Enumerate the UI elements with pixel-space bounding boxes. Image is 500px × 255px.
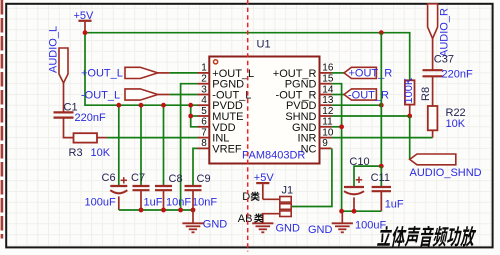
junction (193,210) — [191, 208, 196, 213]
wire R3 to INL pin 7 — [107, 137, 198, 139]
svg-text:C7: C7 — [131, 172, 145, 184]
capacitor C37 220nF — [423, 39, 473, 106]
svg-text:100uF: 100uF — [85, 197, 116, 209]
svg-text:AUDIO_R: AUDIO_R — [439, 8, 451, 57]
resistor R3 10K — [69, 133, 111, 159]
wire PGND pin2 to ground rail — [181, 84, 198, 210]
svg-text:AUDIO_SHND: AUDIO_SHND — [410, 167, 482, 179]
svg-text:10nF: 10nF — [166, 197, 191, 209]
capacitor C6 100uF (polarized) — [85, 172, 128, 210]
capacitor C10 100uF (polarized) — [344, 156, 386, 231]
svg-text:C11: C11 — [371, 172, 390, 184]
svg-text:R3: R3 — [69, 147, 83, 159]
IC U1 PAM8403DR — [198, 39, 334, 164]
svg-text:5: 5 — [201, 106, 207, 117]
svg-text:C37: C37 — [434, 54, 454, 66]
svg-text:10K: 10K — [91, 147, 111, 159]
print page boundary (dashed) — [247, 0, 249, 252]
ground GND (left) — [182, 210, 227, 232]
wire MUTE/VDD tie to 5V — [191, 105, 198, 127]
svg-text:4: 4 — [201, 95, 207, 106]
svg-text:GND: GND — [276, 223, 301, 235]
capacitor C7 1uF — [131, 172, 163, 210]
svg-text:-OUT_R: -OUT_R — [348, 89, 389, 101]
capacitor C11 1uF — [371, 172, 404, 211]
svg-text:J1: J1 — [282, 185, 294, 197]
ground GND (C10/C11) — [308, 211, 353, 236]
port AUDIO_L — [48, 26, 69, 83]
junction (164,210) — [161, 208, 166, 213]
wire PVDD pin13 to 5V — [332, 104, 382, 106]
svg-text:10nF: 10nF — [192, 197, 217, 209]
svg-text:C6: C6 — [102, 172, 116, 184]
wire pin 16 to +OUT_R — [332, 72, 345, 74]
wire NC pin9 to J1 pin2 — [291, 148, 332, 206]
wire C10/C11 top rail — [354, 166, 381, 187]
junction (342,210) — [339, 209, 344, 214]
port AUDIO_SHND — [410, 154, 482, 179]
capacitor C8 10nF — [155, 173, 191, 210]
svg-text:3: 3 — [201, 84, 207, 95]
junction (342,127) — [339, 124, 344, 129]
junction (119,105) — [116, 103, 121, 108]
svg-text:D: D — [242, 191, 250, 203]
wire ground rail C6-C9 — [119, 209, 193, 211]
svg-text:U1: U1 — [257, 39, 271, 51]
port +OUT_L — [81, 67, 170, 79]
junction 5V/C10-C11 feed (381,33) — [379, 30, 384, 35]
wire +OUT_L to pin 1 — [170, 72, 198, 74]
svg-text:C9: C9 — [197, 173, 211, 185]
svg-text:8: 8 — [201, 138, 207, 149]
power +5V (top left) — [74, 10, 95, 33]
wire 5V vertical to C10/C11 — [380, 33, 382, 170]
svg-text:11: 11 — [322, 117, 333, 128]
svg-text:AB: AB — [238, 213, 253, 225]
junction (191,105) — [188, 103, 193, 108]
svg-text:100K: 100K — [403, 77, 415, 103]
wire VREF pin8 to C9 — [193, 148, 198, 186]
svg-text:-OUT_L: -OUT_L — [81, 89, 120, 101]
svg-text:220nF: 220nF — [442, 69, 473, 81]
wire PVDD rail to C8 — [163, 105, 165, 186]
junction (410,116) — [407, 114, 412, 119]
port AUDIO_R — [428, 4, 451, 57]
junction (354,210) — [352, 209, 357, 214]
svg-text:220nF: 220nF — [75, 112, 106, 124]
svg-text:1uF: 1uF — [144, 197, 163, 209]
wire PVDD rail to C6 — [118, 105, 120, 186]
svg-text:+OUT_L: +OUT_L — [81, 68, 123, 80]
resistor R8 100K — [403, 77, 432, 116]
wire SHND pin12 to R8 — [332, 115, 410, 117]
svg-text:R8: R8 — [420, 87, 432, 101]
junction (191,116) — [188, 114, 193, 119]
port -OUT_R — [344, 89, 389, 101]
wire R8/SHND down to AUDIO_SHND — [409, 116, 411, 159]
junction +5V at (85,33) — [83, 30, 88, 35]
junction (141,105) — [139, 103, 144, 108]
svg-text:GND: GND — [203, 218, 228, 230]
resistor R22 10K — [428, 106, 466, 138]
svg-text:C8: C8 — [169, 173, 183, 185]
wire INR pin10 to R22 — [332, 137, 433, 139]
junction (181,210) — [178, 208, 183, 213]
wire pin 14 to -OUT_R — [332, 94, 345, 96]
port -OUT_L — [81, 89, 170, 101]
wire -OUT_L to pin 3 — [170, 94, 198, 96]
svg-text:VREF: VREF — [212, 143, 242, 155]
svg-text:2: 2 — [201, 74, 207, 85]
wire ground rail C10/C11 — [342, 210, 382, 212]
svg-text:GND: GND — [308, 224, 333, 236]
wire PVDD rail to C7 — [140, 105, 142, 186]
power +5V (J1) — [254, 172, 275, 199]
port +OUT_R — [344, 67, 392, 79]
svg-text:NC: NC — [301, 143, 317, 155]
wire +5V down-left to PVDD pin 4 — [85, 33, 198, 106]
capacitor C9 10nF — [185, 173, 218, 210]
svg-text:10K: 10K — [446, 118, 466, 130]
svg-text:1: 1 — [201, 63, 207, 74]
junction (381,166) — [379, 164, 384, 169]
svg-text:7: 7 — [201, 127, 207, 138]
junction (381,105) — [379, 103, 384, 108]
wire PGND pin15 / GND pin11 to ground — [332, 84, 342, 212]
connector J1 — [263, 185, 293, 224]
junction (141,210) — [139, 208, 144, 213]
svg-text:PAM8403DR: PAM8403DR — [242, 150, 305, 162]
title 立体声音频功放 — [377, 226, 477, 247]
junction (164,105) — [161, 103, 166, 108]
text D-class — [242, 191, 259, 203]
svg-text:9: 9 — [322, 138, 328, 149]
svg-text:C10: C10 — [349, 156, 369, 168]
svg-text:AUDIO_L: AUDIO_L — [48, 26, 60, 73]
svg-text:100uF: 100uF — [355, 219, 386, 231]
ground GND (J1) — [252, 223, 300, 235]
svg-text:1uF: 1uF — [385, 199, 404, 211]
svg-text:6: 6 — [201, 117, 207, 128]
svg-text:16: 16 — [322, 63, 334, 74]
svg-text:+OUT_R: +OUT_R — [349, 68, 393, 80]
capacitor C1 220nF — [54, 83, 106, 138]
text AB-class — [238, 213, 264, 225]
wire +5V rail to R8 — [85, 33, 410, 81]
